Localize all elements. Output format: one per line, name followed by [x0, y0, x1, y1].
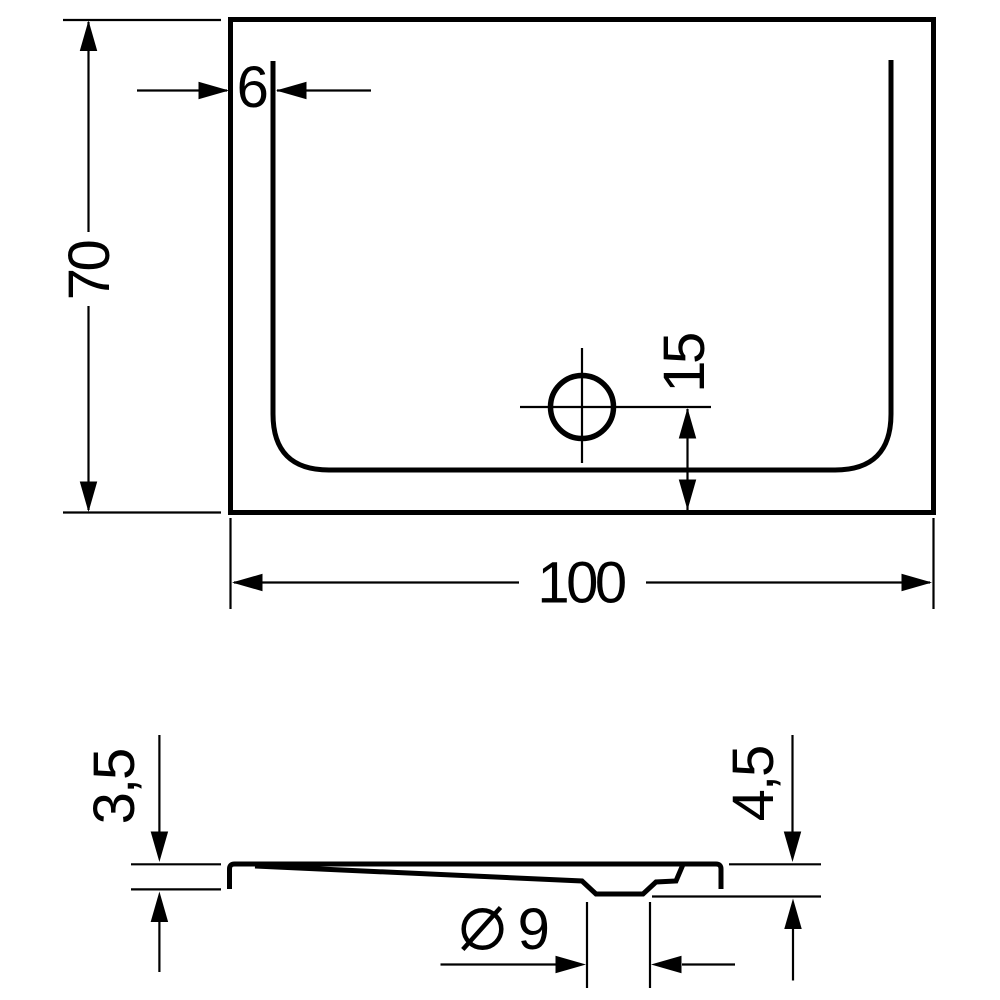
dim diameter 9: left arrow line	[441, 963, 557, 965]
dim 6: right arrow line	[277, 89, 371, 91]
dim 6: right arrowhead	[276, 82, 307, 100]
dim 4,5: top extension line	[729, 863, 821, 865]
drain crosshair horizontal / extension for 15 dim	[520, 406, 711, 408]
svg-text:3,5: 3,5	[82, 750, 147, 825]
dim 4,5: lower arrow line	[792, 928, 794, 981]
dim diameter 9: left extension line	[586, 902, 588, 988]
dim 70: label	[57, 242, 122, 301]
svg-text:9: 9	[518, 897, 548, 962]
cross-section: sloped floor with drain recess	[255, 865, 683, 895]
dim 15: dimension line	[686, 409, 688, 510]
drain circle	[551, 376, 614, 439]
dim 100: arrowhead right	[902, 574, 933, 592]
dim 15: arrowhead up	[679, 408, 697, 439]
dim 70: dimension line upper segment	[87, 22, 89, 232]
dim diameter 9: right arrow line	[682, 963, 735, 965]
dim 4,5: bottom extension line (recess bottom)	[652, 895, 821, 897]
dim 100: left extension line	[229, 518, 231, 609]
dim 15: label	[652, 334, 717, 393]
dim diameter 9: right arrowhead (left)	[651, 956, 682, 974]
dim 70: arrowhead up	[80, 21, 98, 52]
dim 4,5: lower arrowhead (up)	[784, 899, 802, 930]
dim 3,5: upper arrow line	[158, 735, 160, 834]
dim 70: dimension line lower segment	[87, 306, 89, 510]
dim 100: dimension line right segment	[646, 581, 930, 583]
dim 15: arrowhead down	[679, 480, 697, 511]
dim 3,5: bottom extension line	[131, 888, 221, 890]
dim diameter 9: left arrowhead (right)	[556, 956, 587, 974]
dim 70: arrowhead down	[80, 482, 98, 513]
top view: outer rectangle of shower tray	[231, 20, 934, 513]
dim 70: top extension line	[63, 19, 221, 21]
svg-text:6: 6	[237, 55, 267, 120]
dim diameter 9: right extension line	[649, 902, 651, 988]
dim 100: right extension line	[932, 518, 934, 609]
dim 6: left arrowhead	[199, 82, 230, 100]
dim 4,5: label	[721, 747, 786, 822]
svg-text:15: 15	[652, 334, 717, 393]
svg-text:4,5: 4,5	[721, 747, 786, 822]
dim 100: arrowhead left	[232, 574, 263, 592]
cross-section: tray profile outline	[230, 864, 722, 889]
dim 70: bottom extension line	[63, 511, 221, 513]
drain crosshair vertical	[581, 348, 583, 463]
dim 100: dimension line left segment	[234, 581, 519, 583]
dim 6: left arrow line	[137, 89, 227, 91]
dim 3,5: label	[82, 750, 147, 825]
dim 3,5: lower arrowhead (up)	[151, 892, 169, 923]
dim 3,5: lower arrow line	[158, 920, 160, 972]
dim 4,5: upper arrow line	[791, 735, 793, 834]
svg-text:100: 100	[537, 551, 625, 616]
svg-text:70: 70	[57, 242, 122, 301]
dim 3,5: upper arrowhead (down)	[151, 832, 169, 863]
dim diameter 9: label diameter symbol	[464, 910, 502, 948]
dim 3,5: top extension line	[131, 863, 221, 865]
top view: inner tray outline (open at top)	[273, 60, 891, 470]
dim 4,5: upper arrowhead (down)	[784, 832, 802, 863]
